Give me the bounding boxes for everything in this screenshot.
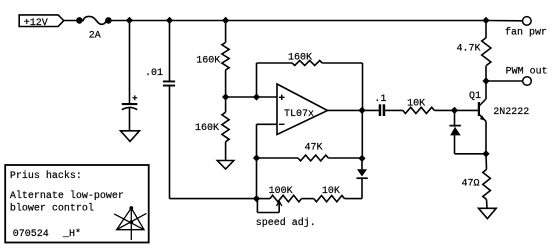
svg-text:160K: 160K bbox=[288, 53, 312, 64]
svg-text:Prius hacks:: Prius hacks: bbox=[10, 170, 82, 182]
svg-text:070524: 070524 bbox=[13, 229, 49, 240]
svg-text:Q1: Q1 bbox=[469, 91, 481, 102]
svg-text:4.7K: 4.7K bbox=[457, 44, 481, 55]
svg-text:2N2222: 2N2222 bbox=[493, 107, 529, 118]
svg-text:10K: 10K bbox=[407, 99, 425, 110]
svg-text:160K: 160K bbox=[196, 56, 220, 67]
svg-text:2A: 2A bbox=[89, 31, 101, 42]
svg-text:.01: .01 bbox=[145, 68, 163, 79]
svg-text:10K: 10K bbox=[322, 186, 340, 197]
svg-text:47K: 47K bbox=[305, 143, 323, 154]
svg-text:speed adj.: speed adj. bbox=[256, 217, 316, 229]
svg-text:_H*: _H* bbox=[62, 228, 81, 240]
svg-text:fan pwr: fan pwr bbox=[505, 27, 547, 39]
svg-text:160K: 160K bbox=[195, 123, 219, 134]
svg-text:.1: .1 bbox=[374, 94, 386, 105]
svg-text:100K: 100K bbox=[269, 186, 293, 197]
svg-text:PWM out: PWM out bbox=[506, 67, 548, 78]
svg-text:TL07x: TL07x bbox=[284, 109, 314, 120]
svg-text:blower control: blower control bbox=[10, 202, 94, 214]
svg-text:47Ω: 47Ω bbox=[462, 179, 480, 190]
svg-text:Alternate low-power: Alternate low-power bbox=[10, 190, 124, 202]
svg-text:+12V: +12V bbox=[24, 18, 48, 29]
